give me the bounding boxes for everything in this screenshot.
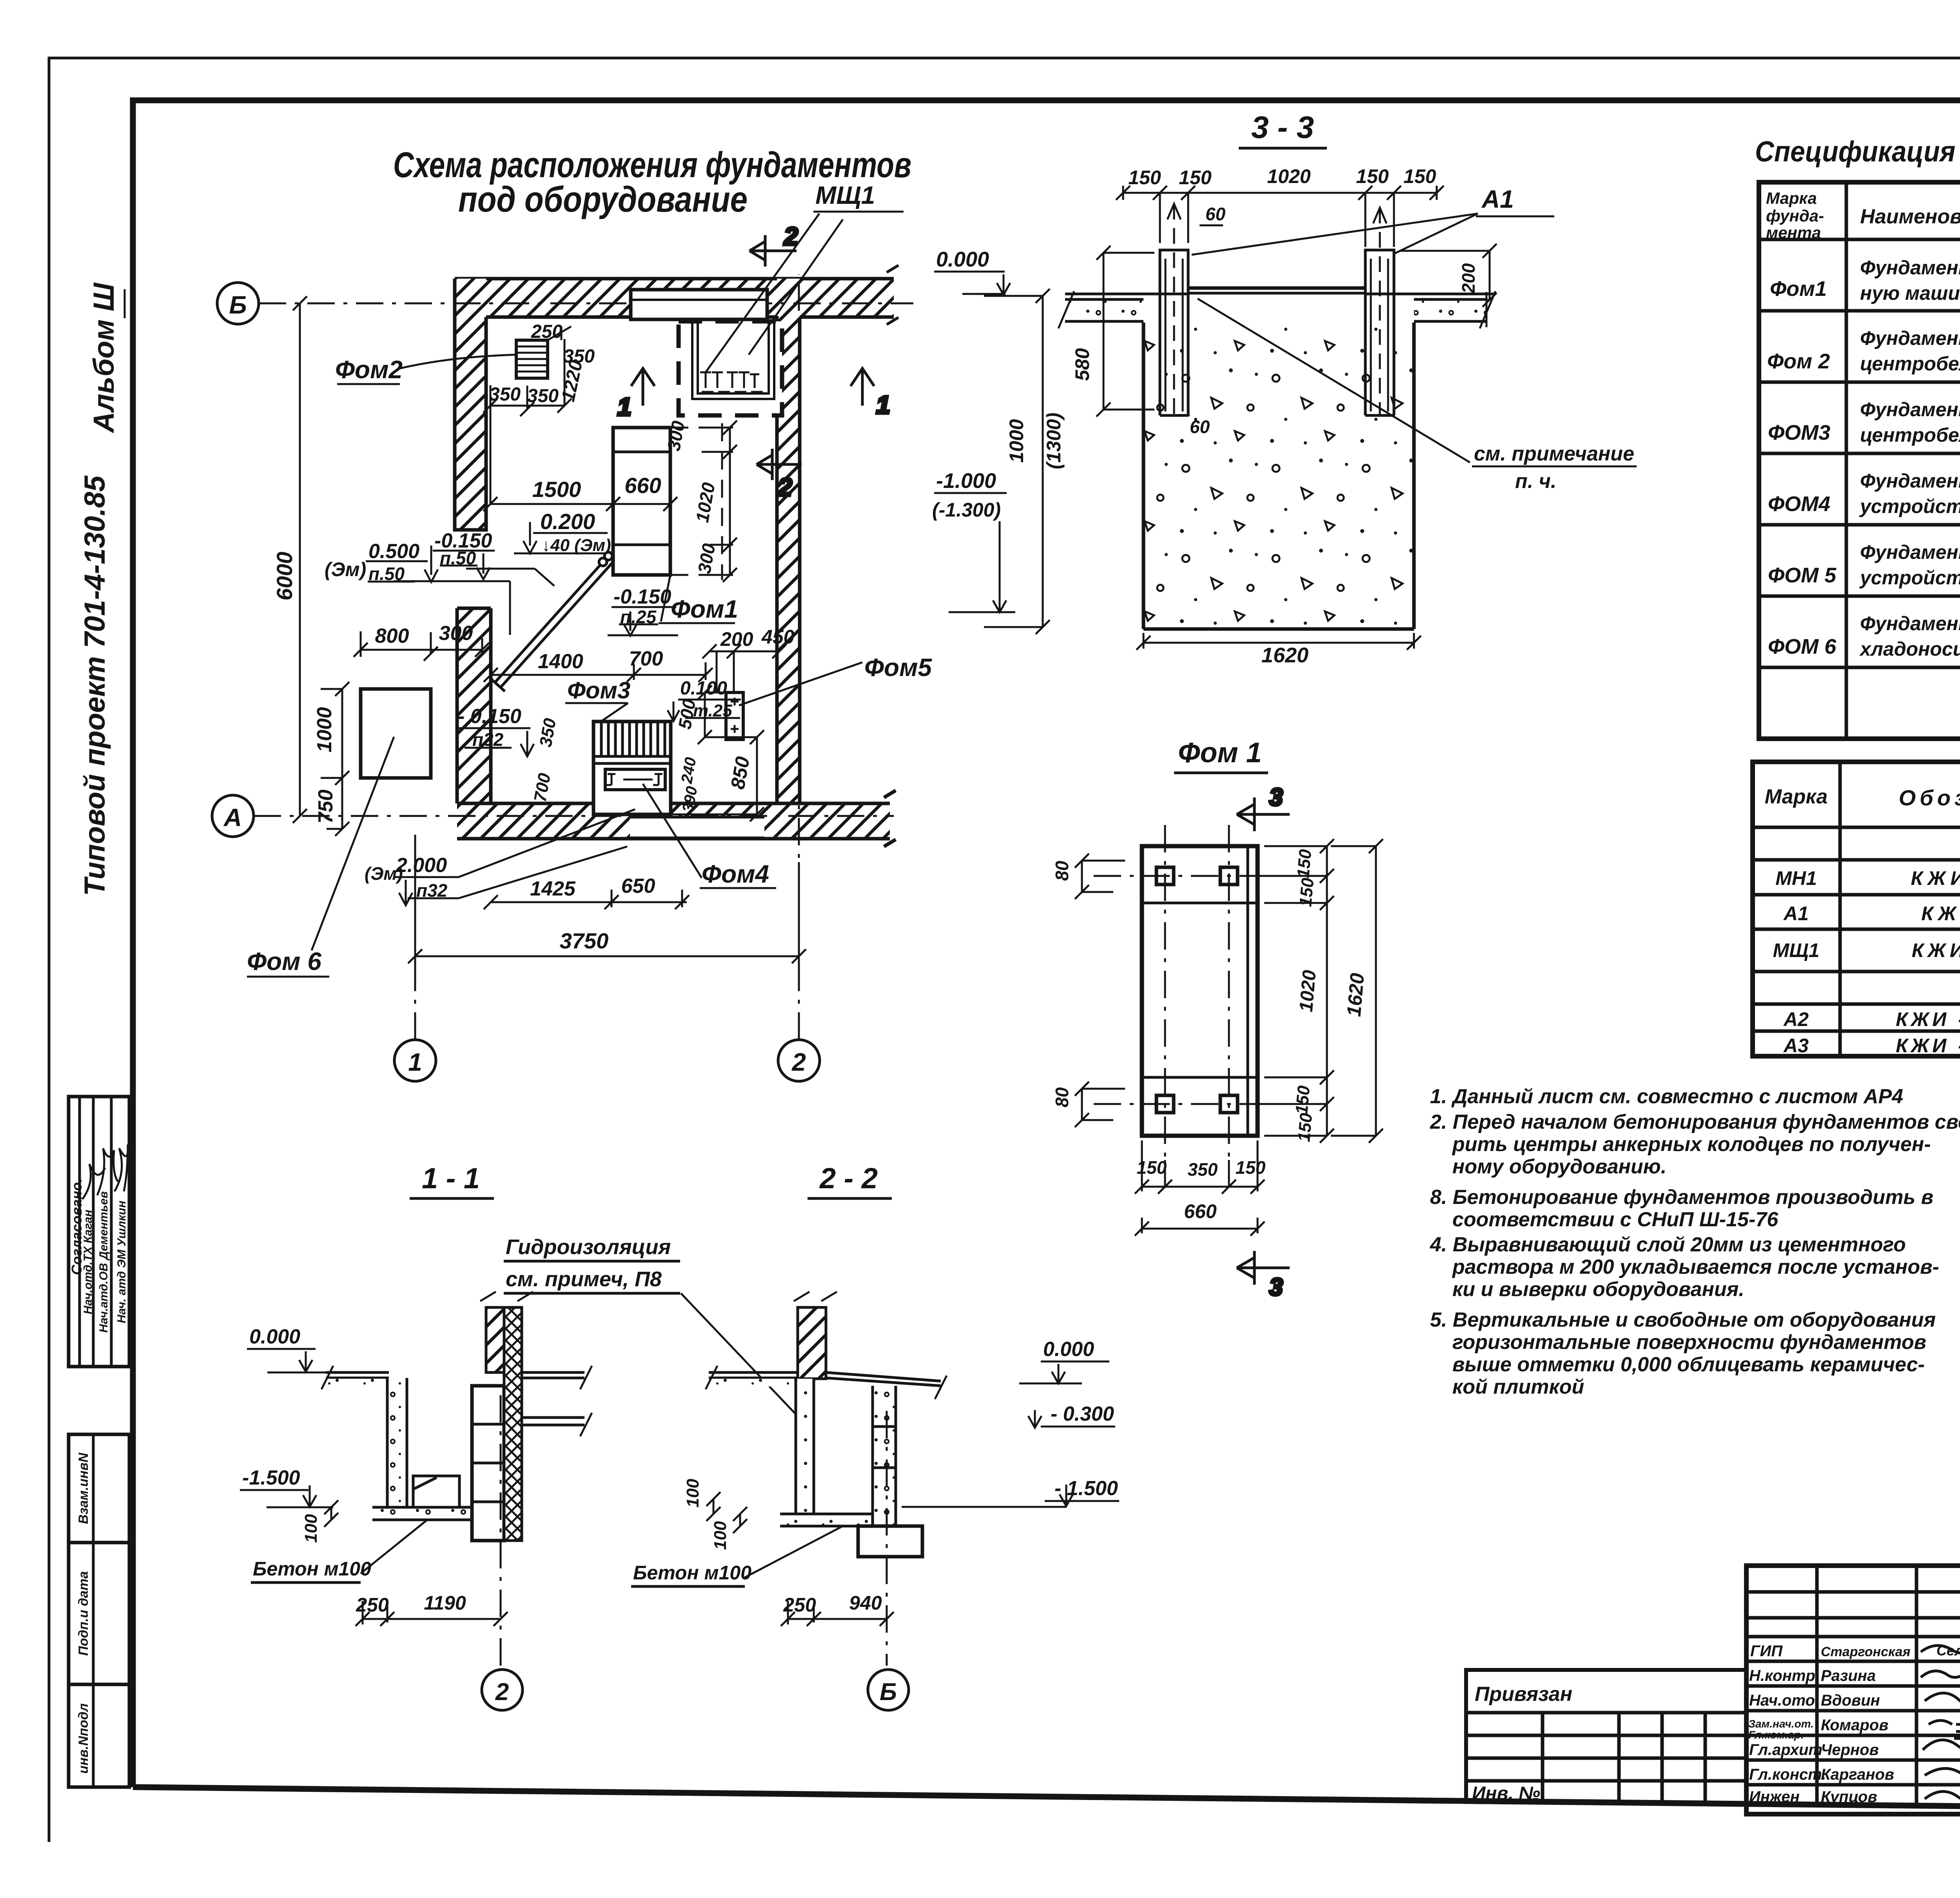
svg-text:1620: 1620 <box>1261 644 1308 667</box>
svg-text:А: А <box>223 803 242 832</box>
svg-text:2: 2 <box>791 1048 806 1076</box>
svg-text:-0.150: -0.150 <box>613 586 671 608</box>
svg-text:- 0.300: - 0.300 <box>1051 1403 1114 1425</box>
svg-text:ФОМ3: ФОМ3 <box>1768 421 1830 444</box>
svg-text:Фом1: Фом1 <box>671 595 738 623</box>
svg-text:150: 150 <box>1128 167 1161 189</box>
svg-text:Нач.атд.ОВ Дементьев: Нач.атд.ОВ Дементьев <box>97 1191 110 1333</box>
svg-text:3 - 3: 3 - 3 <box>1251 110 1314 145</box>
svg-text:100: 100 <box>301 1514 321 1543</box>
svg-text:Б: Б <box>229 291 247 319</box>
anchor bolt right <box>1373 208 1395 415</box>
axis line + circle Б <box>886 1411 888 1666</box>
svg-text:фунда-: фунда- <box>1766 207 1824 225</box>
svg-text:800: 800 <box>375 625 409 647</box>
svg-text:Типовой проект 701-4-130.85: Типовой проект 701-4-130.85 <box>78 475 111 896</box>
svg-text:Фундамент под холодиль-: Фундамент под холодиль- <box>1860 257 1960 279</box>
svg-text:(-1.300): (-1.300) <box>932 499 1001 521</box>
svg-text:Фом2: Фом2 <box>335 355 403 384</box>
right foundation column <box>873 1386 896 1526</box>
svg-text:КЖИ - А1: КЖИ - А1 <box>1921 903 1960 925</box>
pit base <box>780 1514 885 1526</box>
svg-text:А1: А1 <box>1481 185 1514 213</box>
floor right upper <box>522 1372 584 1378</box>
svg-text:МН1: МН1 <box>1775 867 1817 889</box>
svg-text:2. Перед началом бетонирования: 2. Перед началом бетонирования фундамент… <box>1430 1111 1960 1133</box>
svg-text:кой плиткой: кой плиткой <box>1452 1376 1584 1398</box>
svg-text:КЖИ - А2 и А3: КЖИ - А2 и А3 <box>1896 1008 1960 1030</box>
svg-text:Вдовин: Вдовин <box>1821 1692 1880 1709</box>
level 0.100 т.25 <box>668 678 741 721</box>
svg-text:1620: 1620 <box>1343 972 1368 1017</box>
svg-text:Подп.и дата: Подп.и дата <box>76 1571 91 1656</box>
svg-text:Фом5: Фом5 <box>864 653 932 682</box>
svg-text:соответствии с СНиП Ш-15-76: соответствии с СНиП Ш-15-76 <box>1452 1208 1779 1231</box>
level 0.000 <box>934 248 1010 295</box>
svg-text:А1: А1 <box>1783 903 1809 925</box>
Фом2 foundation <box>516 340 548 378</box>
svg-text:350: 350 <box>1188 1159 1218 1180</box>
svg-text:650: 650 <box>621 875 655 897</box>
svg-text:Марка: Марка <box>1766 189 1817 207</box>
svg-text:- 1.500: - 1.500 <box>1054 1477 1118 1500</box>
floor left <box>326 1372 389 1378</box>
footing block <box>858 1526 922 1557</box>
main rect <box>1142 846 1258 1136</box>
pit left wall speckled <box>796 1379 814 1514</box>
svg-text:рить центры анкерных колодцев: рить центры анкерных колодцев по получен… <box>1452 1133 1931 1156</box>
svg-text:- 0.150: - 0.150 <box>458 705 521 728</box>
spec table grid <box>1759 182 1960 739</box>
svg-text:1: 1 <box>876 391 890 419</box>
svg-text:Село 1984: Село 1984 <box>1936 1642 1960 1659</box>
wall above floor diagonal hatch <box>486 1307 504 1372</box>
svg-text:Взам.инвN: Взам.инвN <box>76 1452 91 1524</box>
svg-text:↓40 (Эм): ↓40 (Эм) <box>542 536 611 555</box>
svg-text:КЖИ - МЩ1: КЖИ - МЩ1 <box>1912 939 1960 961</box>
Фом3-Фом4 compound foundation <box>593 721 671 814</box>
pit bottom base <box>372 1507 474 1520</box>
right wall hatched band <box>777 279 800 803</box>
wall above floor <box>798 1307 826 1379</box>
top wall hatched band <box>455 279 894 317</box>
svg-text:см. примеч, П8: см. примеч, П8 <box>506 1267 662 1291</box>
Фом6 leader <box>247 737 394 977</box>
svg-text:60: 60 <box>1205 204 1226 224</box>
svg-text:1020: 1020 <box>1296 969 1320 1013</box>
anchor bolt left <box>1167 204 1190 415</box>
anchors A2 A3 inside pit <box>700 372 763 392</box>
svg-text:выше отметки 0,000 облицевать: выше отметки 0,000 облицевать керамичес- <box>1452 1353 1925 1376</box>
svg-text:Фундамент под распред-: Фундамент под распред- <box>1860 470 1960 492</box>
floor right sloped <box>826 1372 941 1386</box>
masonry column <box>472 1386 504 1541</box>
svg-text:Нач.ото: Нач.ото <box>1749 1692 1815 1709</box>
level (Эм) 0.500 п.50 <box>325 540 438 584</box>
svg-text:под оборудование: под оборудование <box>458 179 748 219</box>
МЩ1 pit cover plate <box>631 290 767 319</box>
svg-text:п32: п32 <box>472 729 504 750</box>
left lower wall hatched band <box>457 608 491 803</box>
svg-text:центробежный КМ 8/18: центробежный КМ 8/18 <box>1860 353 1960 375</box>
svg-text:ФОМ 5: ФОМ 5 <box>1768 564 1837 587</box>
svg-text:КЖИ - МН1: КЖИ - МН1 <box>1911 867 1960 889</box>
svg-text:450: 450 <box>761 626 795 648</box>
recess top between shafts <box>1188 286 1365 290</box>
central grid role texts <box>1748 1642 1826 1806</box>
svg-text:300: 300 <box>439 622 473 645</box>
svg-text:150: 150 <box>1236 1157 1266 1178</box>
svg-text:0.000: 0.000 <box>936 248 989 271</box>
svg-text:ную машину МКТ-20-2-0: ную машину МКТ-20-2-0 <box>1860 282 1960 304</box>
см. примечание label <box>1198 299 1637 493</box>
svg-text:Фом 1: Фом 1 <box>1178 737 1262 769</box>
svg-text:2 - 2: 2 - 2 <box>819 1162 878 1195</box>
section 3 marker bottom <box>1237 1251 1290 1301</box>
svg-text:(1300): (1300) <box>1043 413 1065 470</box>
svg-text:0.200: 0.200 <box>540 509 595 534</box>
svg-text:Б: Б <box>880 1679 897 1706</box>
level -0.150 п.50 <box>433 529 495 579</box>
svg-text:3: 3 <box>1269 1274 1283 1301</box>
svg-text:200: 200 <box>720 628 753 650</box>
svg-text:750: 750 <box>314 790 337 824</box>
svg-text:Карганов: Карганов <box>1821 1766 1894 1783</box>
svg-text:устройство: устройство <box>1859 495 1960 517</box>
svg-text:Нач.отд.ТХ Каган: Нач.отд.ТХ Каган <box>82 1210 94 1314</box>
svg-text:Зам.нач.от.: Зам.нач.от. <box>1748 1718 1814 1730</box>
anchor squares top row <box>1156 867 1174 885</box>
svg-text:Фом1: Фом1 <box>1770 277 1827 301</box>
svg-text:580: 580 <box>1071 348 1093 381</box>
svg-text:80: 80 <box>1052 1087 1072 1108</box>
svg-text:2.000: 2.000 <box>396 854 447 877</box>
svg-text:Н.контр: Н.контр <box>1749 1667 1815 1684</box>
svg-text:Фом4: Фом4 <box>702 860 769 888</box>
svg-text:ГИП: ГИП <box>1750 1642 1783 1660</box>
axis 2 circle <box>778 274 820 1081</box>
level -0.150 п.32 <box>456 705 534 756</box>
svg-text:2: 2 <box>778 473 792 501</box>
svg-text:инв.Nподл: инв.Nподл <box>76 1703 91 1774</box>
svg-text:Старгонская: Старгонская <box>1821 1644 1911 1659</box>
svg-text:0.100: 0.100 <box>680 678 727 699</box>
svg-text:150: 150 <box>1292 1085 1314 1115</box>
svg-text:Фундамент под насосы: Фундамент под насосы <box>1860 399 1960 421</box>
Фом5 leader <box>739 662 862 705</box>
svg-text:Схема расположения фундаментов: Схема расположения фундаментов <box>393 145 911 185</box>
svg-text:А3: А3 <box>1783 1035 1809 1057</box>
level 2.000 п.32 <box>365 809 635 905</box>
svg-text:1000: 1000 <box>313 707 336 752</box>
svg-text:Купцов: Купцов <box>1821 1788 1877 1806</box>
floor slab right of pit <box>1394 291 1496 328</box>
svg-text:1500: 1500 <box>532 477 581 502</box>
гидроизоляция leader to 2-2 <box>681 1293 808 1427</box>
section 3 marker top <box>1237 784 1290 831</box>
svg-text:Фом3: Фом3 <box>567 677 630 703</box>
svg-text:Фом 6: Фом 6 <box>247 947 321 975</box>
centerlines <box>1094 825 1290 1160</box>
step bracket inside pit <box>413 1476 459 1507</box>
Фом5 foundation <box>726 692 743 740</box>
svg-text:-1.500: -1.500 <box>242 1467 300 1489</box>
axis line + circle 2 <box>500 1395 502 1666</box>
svg-text:250: 250 <box>531 321 563 342</box>
central signature grid <box>1746 1566 1960 1814</box>
svg-text:Инв. №: Инв. № <box>1472 1783 1540 1804</box>
wall cut ticks right end <box>887 265 898 324</box>
svg-text:(Эм): (Эм) <box>325 558 366 580</box>
svg-text:1190: 1190 <box>424 1592 466 1614</box>
svg-text:100: 100 <box>711 1521 730 1550</box>
svg-text:мента: мента <box>1766 223 1821 242</box>
svg-text:см. примечание: см. примечание <box>1474 442 1634 465</box>
svg-text:4. Выравнивающий слой 20мм из: 4. Выравнивающий слой 20мм из цементного <box>1430 1233 1906 1256</box>
svg-text:Бетон м100: Бетон м100 <box>633 1562 751 1584</box>
svg-text:ФОМ4: ФОМ4 <box>1768 492 1830 516</box>
svg-text:2: 2 <box>495 1679 509 1706</box>
svg-text:0.500: 0.500 <box>368 540 419 563</box>
svg-text:-1.000: -1.000 <box>936 469 996 493</box>
svg-text:МЩ1: МЩ1 <box>1773 939 1820 961</box>
svg-text:1425: 1425 <box>530 877 576 900</box>
svg-text:5. Вертикальные и свободные от: 5. Вертикальные и свободные от оборудова… <box>1430 1309 1936 1331</box>
section mark 1 right <box>851 368 890 419</box>
axis Б dash line <box>259 303 913 305</box>
svg-text:горизонтальные поверхности фун: горизонтальные поверхности фундаментов <box>1452 1331 1926 1354</box>
svg-text:1000: 1000 <box>1005 419 1027 462</box>
приямок dashed pit <box>679 319 782 415</box>
svg-text:МЩ1: МЩ1 <box>815 181 875 209</box>
Фом6 foundation <box>361 689 431 778</box>
svg-text:6000: 6000 <box>272 552 297 601</box>
svg-text:1400: 1400 <box>538 650 583 673</box>
anchor squares bottom row <box>1156 1095 1174 1113</box>
svg-text:КЖИ - А2 и А3: КЖИ - А2 и А3 <box>1896 1035 1960 1057</box>
left stamp: vzam inv <box>69 1434 129 1543</box>
svg-text:хладоносителя емк. 0,5м³: хладоносителя емк. 0,5м³ <box>1859 638 1960 660</box>
ramp diagonal channel <box>490 552 612 691</box>
svg-text:250: 250 <box>356 1594 389 1616</box>
svg-text:Гидроизоляция: Гидроизоляция <box>506 1235 671 1259</box>
svg-text:ки и выверки оборудования.: ки и выверки оборудования. <box>1452 1278 1744 1301</box>
svg-text:Гл.архит: Гл.архит <box>1749 1741 1822 1758</box>
anchor shaft right <box>1365 250 1394 415</box>
axis 1 circle <box>394 843 436 1081</box>
floor left <box>709 1372 798 1378</box>
section mark 2 lower <box>757 449 802 501</box>
svg-text:100: 100 <box>683 1479 702 1508</box>
svg-text:ному оборудованию.: ному оборудованию. <box>1452 1155 1666 1178</box>
svg-text:3750: 3750 <box>560 928 609 953</box>
svg-text:Марка: Марка <box>1765 785 1828 808</box>
level -1.000 (-1.300) <box>932 469 1015 612</box>
foundation block concrete <box>1143 323 1414 629</box>
svg-text:центробежные КМ8/18: центробежные КМ8/18 <box>1860 424 1960 446</box>
svg-text:150: 150 <box>1294 1112 1316 1143</box>
svg-text:п.50: п.50 <box>440 548 476 568</box>
svg-text:Фундамент под насос: Фундамент под насос <box>1860 327 1960 349</box>
svg-text:150: 150 <box>1294 848 1315 879</box>
floor right lower <box>522 1418 584 1425</box>
section mark 1 left <box>617 368 655 421</box>
long level line from 0.500 mark <box>394 569 554 635</box>
level -0.150 п.25 <box>608 586 678 636</box>
svg-text:ФОМ 6: ФОМ 6 <box>1768 635 1837 658</box>
svg-text:80: 80 <box>1052 861 1072 881</box>
svg-text:150: 150 <box>1356 165 1389 187</box>
Фом1 foundation plan rect <box>613 423 722 580</box>
axis А circle <box>212 795 894 837</box>
svg-text:150: 150 <box>1179 167 1212 189</box>
svg-text:Фом 2: Фом 2 <box>1767 350 1830 373</box>
left upper wall hatched band <box>455 279 486 530</box>
привязан table <box>1466 1670 1746 1804</box>
svg-text:Разина: Разина <box>1821 1667 1876 1684</box>
level 0.200 <box>514 509 611 555</box>
svg-text:Наименование оборудования: Наименование оборудования <box>1860 205 1960 228</box>
left stamp: podp i data <box>69 1543 129 1684</box>
wall notch under Фом4 <box>630 817 764 838</box>
floor slab left of pit <box>1058 291 1159 328</box>
Фом1 leader <box>659 575 735 623</box>
svg-text:п32: п32 <box>416 880 448 901</box>
svg-text:Бетон м100: Бетон м100 <box>253 1558 371 1580</box>
svg-text:660: 660 <box>624 473 661 498</box>
svg-text:660: 660 <box>1184 1200 1217 1222</box>
central grid name texts <box>1821 1644 1911 1806</box>
svg-text:1. Данный лист см. совместно с: 1. Данный лист см. совместно с листом АР… <box>1430 1085 1903 1108</box>
svg-text:200: 200 <box>1458 263 1479 294</box>
svg-text:Комаров: Комаров <box>1821 1717 1888 1734</box>
pit left wall <box>387 1378 407 1507</box>
svg-text:1: 1 <box>617 393 632 421</box>
svg-text:устройство: устройство <box>1859 567 1960 589</box>
left stamp: inv N podl <box>69 1684 129 1787</box>
svg-text:п. ч.: п. ч. <box>1515 470 1556 493</box>
svg-text:п.25: п.25 <box>620 607 657 627</box>
bottom wall hatched band <box>457 803 890 839</box>
svg-text:Фундамент под распред-: Фундамент под распред- <box>1860 541 1960 563</box>
svg-text:1: 1 <box>408 1048 422 1076</box>
svg-text:Чернов: Чернов <box>1821 1741 1879 1758</box>
svg-text:60: 60 <box>1190 417 1210 437</box>
svg-text:Привязан: Привязан <box>1475 1683 1572 1706</box>
svg-text:1 - 1: 1 - 1 <box>422 1162 480 1195</box>
Фом2 leader <box>337 355 516 384</box>
svg-text:3: 3 <box>1269 784 1283 811</box>
svg-text:Обозначение: Обозначение <box>1899 785 1960 810</box>
svg-text:8. Бетонирование фундаментов п: 8. Бетонирование фундаментов производить… <box>1430 1186 1933 1209</box>
svg-text:Фундамент под бак для: Фундамент под бак для <box>1860 613 1960 634</box>
svg-text:Инжен: Инжен <box>1749 1788 1800 1806</box>
svg-text:0.000: 0.000 <box>1043 1338 1094 1361</box>
anchor shaft left <box>1160 250 1188 415</box>
section mark 2 top <box>750 222 798 266</box>
svg-text:0.000: 0.000 <box>249 1325 300 1348</box>
svg-text:Гл.конст.: Гл.конст. <box>1749 1766 1826 1783</box>
svg-text:раствора м 200 укладывается по: раствора м 200 укладывается после устано… <box>1452 1256 1939 1278</box>
svg-text:А2: А2 <box>1783 1008 1809 1030</box>
svg-text:1020: 1020 <box>1267 165 1310 187</box>
wall crosshatch band <box>504 1307 522 1541</box>
left stamp: approvals block <box>69 1097 129 1367</box>
svg-text:Спецификация фундаментов под о: Спецификация фундаментов под оборудовани… <box>1755 135 1960 168</box>
svg-text:940: 940 <box>849 1592 882 1614</box>
svg-text:Альбом Ш: Альбом Ш <box>87 282 120 433</box>
svg-text:Нач. атд ЭМ Ушлкин: Нач. атд ЭМ Ушлкин <box>115 1201 128 1323</box>
axis Б circle <box>217 283 259 324</box>
svg-text:150: 150 <box>1403 165 1436 187</box>
svg-text:Гл.ком.ар.: Гл.ком.ар. <box>1748 1729 1804 1741</box>
parts table grid <box>1753 762 1960 1056</box>
signatures column scribbles <box>1921 1644 1960 1807</box>
